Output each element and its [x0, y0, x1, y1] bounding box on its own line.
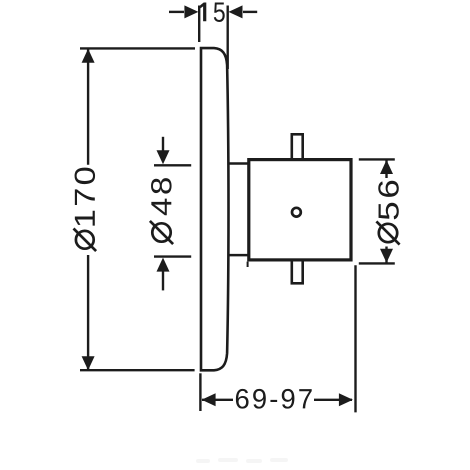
label Ø48 diameter symbol — [150, 221, 173, 244]
dim 15: right extension line — [226, 6, 228, 70]
hub sleeve bottom line — [228, 254, 248, 257]
label 15 digit one — [200, 3, 206, 22]
arrow Ø48 top (points down, outside) — [157, 150, 170, 164]
faint watermark — [196, 458, 288, 463]
center screw circle — [292, 208, 301, 217]
label Ø56 digits — [378, 181, 399, 220]
dim Ø48: upper lead line — [162, 137, 164, 151]
label 69-97 — [236, 389, 312, 409]
arrow Ø48 bottom (points up, outside) — [157, 258, 170, 272]
dim 15: left tail line — [169, 11, 184, 13]
dim 15: right tail line — [243, 11, 257, 13]
dim Ø56: bottom extension line — [359, 262, 395, 264]
label 15 digit five — [214, 2, 225, 22]
label Ø170 diameter symbol — [74, 229, 97, 252]
dim Ø170: top extension line — [80, 47, 195, 49]
arrow dim15 right (points left) — [229, 5, 243, 18]
label Ø170 digits — [75, 168, 96, 226]
label Ø56 diameter symbol — [376, 221, 399, 244]
dim Ø48: bottom tick line — [154, 255, 191, 257]
arrow Ø56 bottom (points down) — [380, 249, 393, 263]
arrow Ø56 top (points up) — [380, 160, 393, 174]
valve body square — [249, 160, 351, 260]
dim 69-97: left extension line — [199, 373, 201, 411]
dim Ø48: top tick line — [154, 164, 191, 166]
arrow Ø170 bottom (points down) — [82, 356, 95, 370]
dim Ø170: bottom extension line — [80, 369, 195, 371]
arrow 69-97 right (points right) — [339, 393, 353, 406]
dim 69-97: right extension line — [354, 265, 356, 412]
dim Ø56: top extension line — [359, 158, 395, 160]
body corner overshoot — [247, 262, 249, 267]
dim 69-97: dimension line right segment — [314, 399, 352, 401]
escutcheon plate outline (side view) — [201, 48, 229, 370]
label Ø48 digits — [151, 178, 172, 215]
arrow dim15 left (points right) — [184, 5, 198, 18]
dim 15: left extension line — [198, 6, 200, 43]
dim Ø56: dimension line lower segment — [385, 247, 387, 264]
arrow 69-97 left (points left) — [202, 393, 216, 406]
dim 69-97: dimension line left segment — [202, 399, 233, 401]
dim Ø170: dimension line lower segment — [87, 255, 89, 370]
dim Ø170: dimension line upper segment — [87, 49, 89, 165]
dim Ø48: lower lead line — [162, 272, 164, 291]
bottom pipe stub — [292, 260, 303, 283]
top pipe stub — [292, 134, 303, 159]
dim Ø56: dimension line upper segment — [385, 160, 387, 178]
arrow Ø170 top (points up) — [82, 49, 95, 63]
hub sleeve top line — [228, 162, 248, 165]
